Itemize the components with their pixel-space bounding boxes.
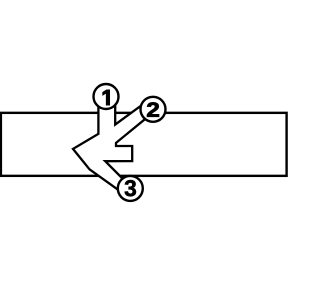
label digit 3 [125, 180, 136, 196]
band rectangle [1, 113, 287, 176]
label digit 2 [147, 102, 159, 116]
callout circle 1 [94, 84, 119, 109]
callout circle 2 [141, 97, 166, 122]
callout circle 3 [118, 176, 143, 201]
label digit 1 [103, 90, 109, 105]
arrow shape [73, 100, 149, 193]
